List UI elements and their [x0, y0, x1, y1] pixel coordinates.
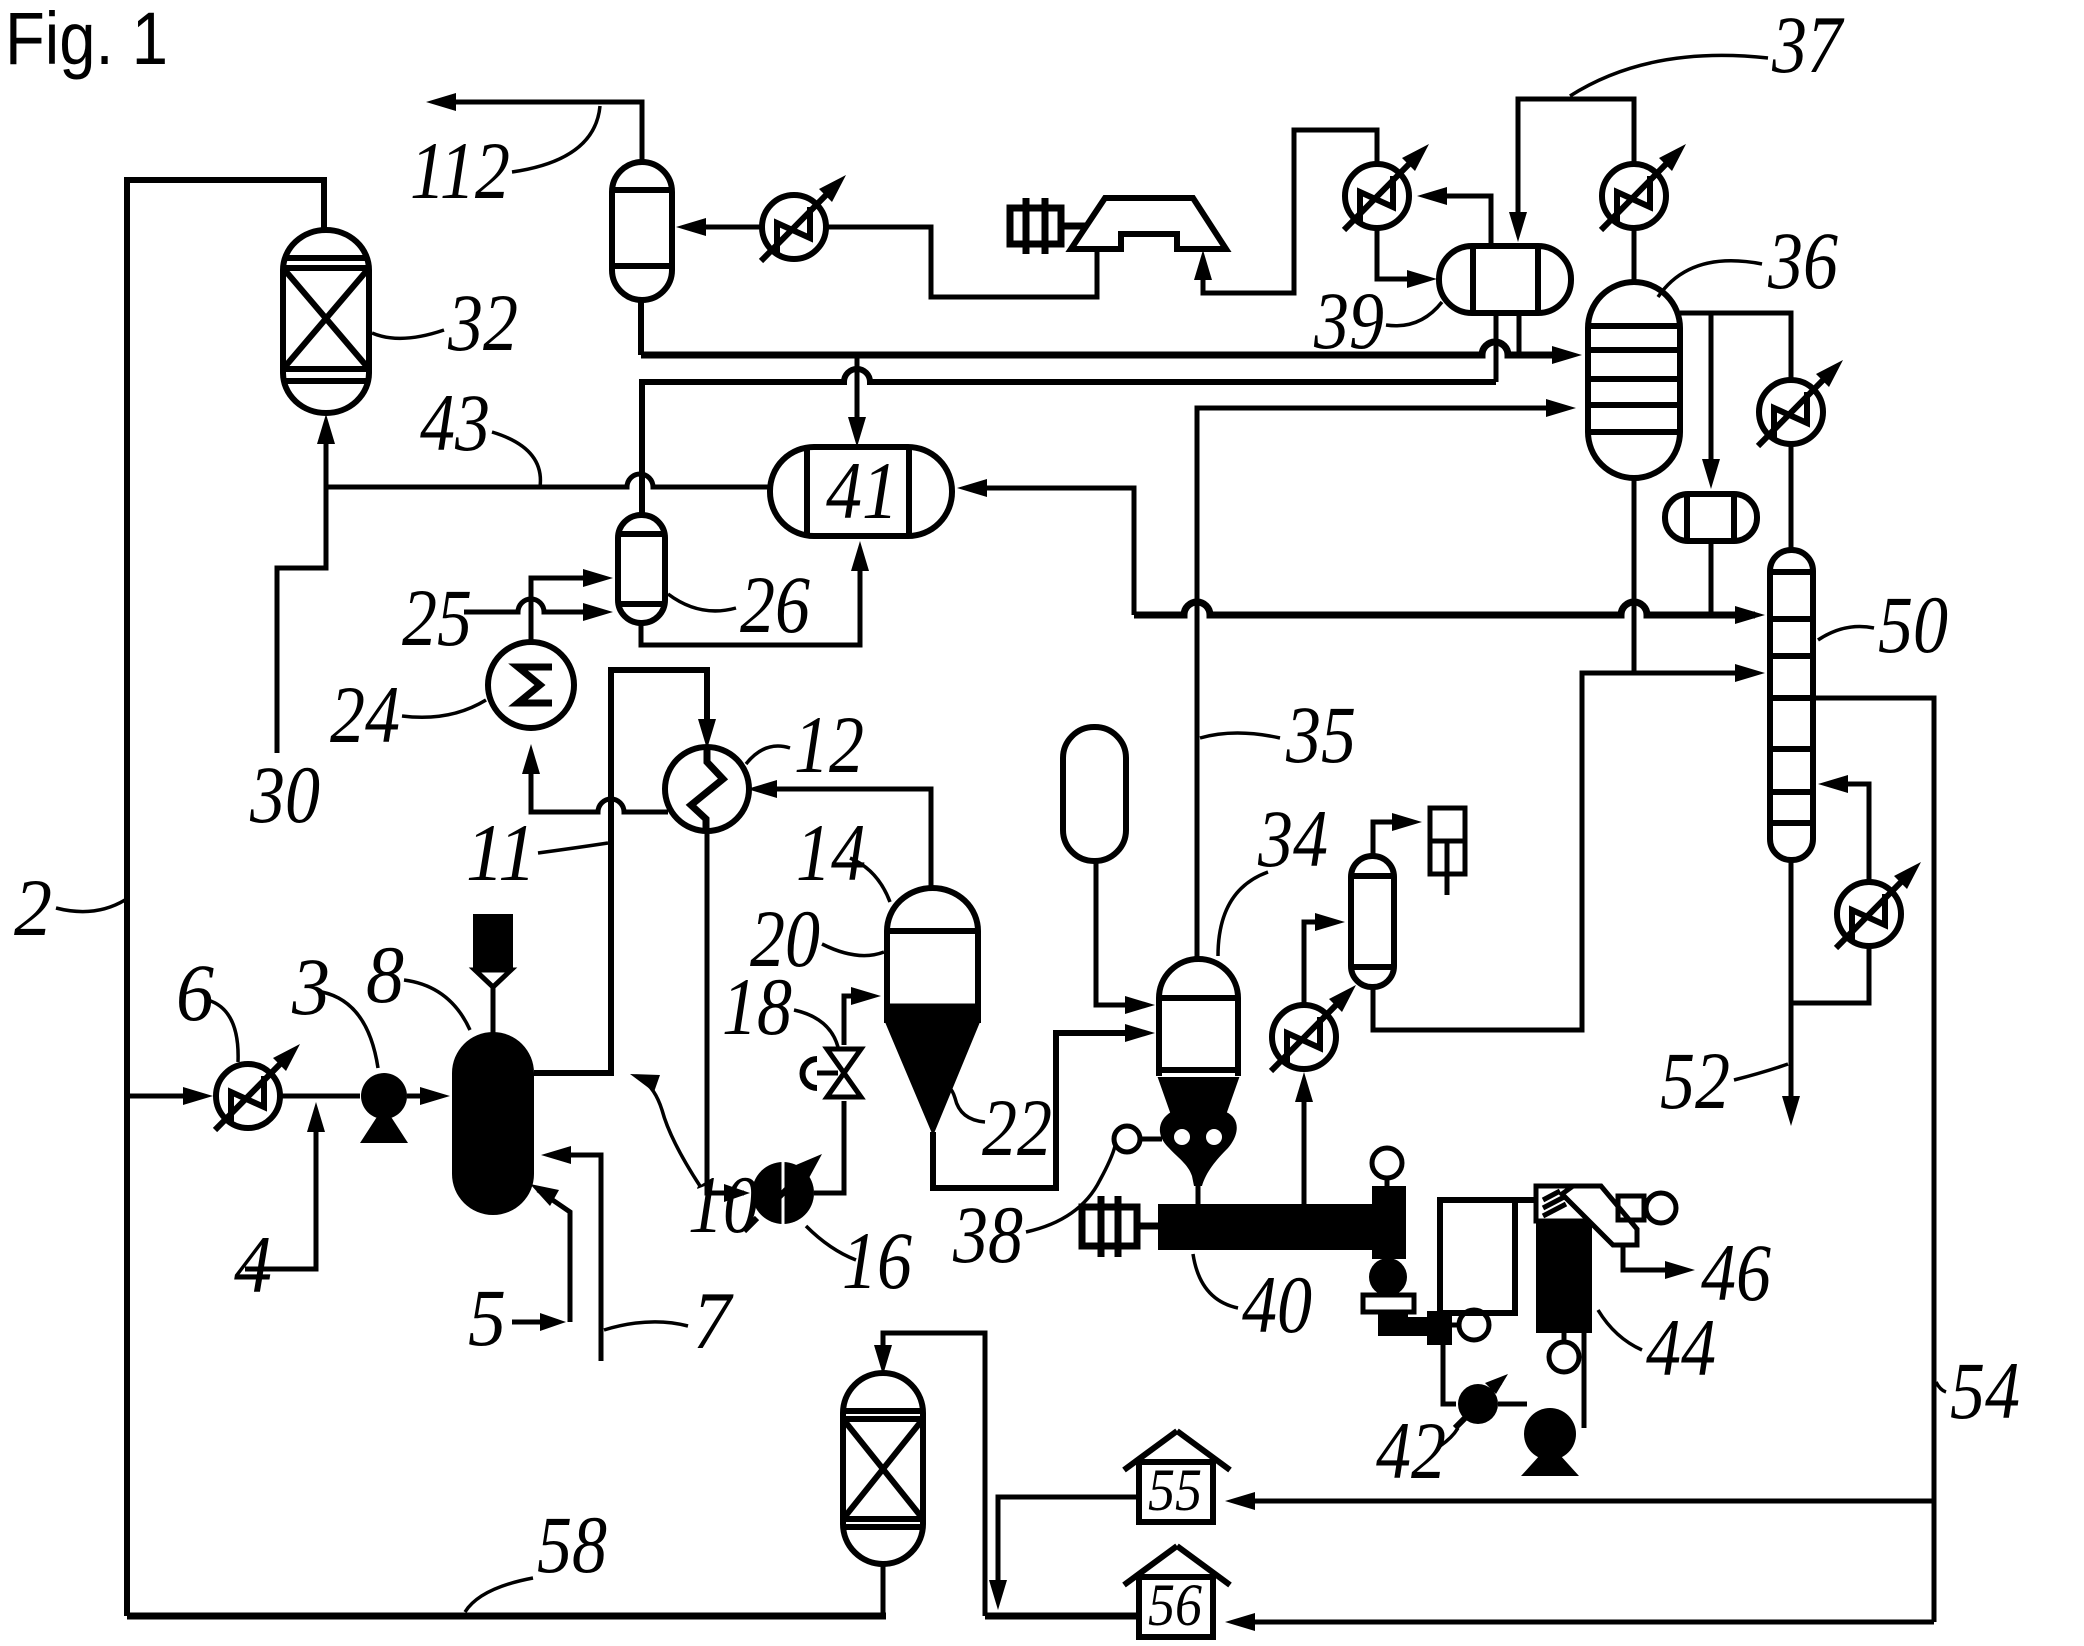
wire pump 42 to pump 42b — [1498, 1402, 1527, 1407]
svg-text:37: 37 — [1771, 0, 1844, 90]
svg-text:38: 38 — [952, 1189, 1023, 1280]
wire pelletizer down to pump 42 — [1443, 1345, 1456, 1404]
svg-text:16: 16 — [842, 1215, 912, 1306]
heat exchanger HX3 (column 36 overhead cooler) — [1601, 144, 1686, 230]
leader for 32 — [372, 330, 444, 338]
wire stream 5 into reactor 8 bottom — [512, 1190, 570, 1322]
svg-text:12: 12 — [794, 699, 864, 790]
wire stream 25 into vessel 26 with hop — [464, 599, 603, 612]
wire vessel 26 bottoms up into vessel 41 bottom — [641, 551, 860, 645]
wire stripper bottoms riser and y=673 line into column 50 — [1373, 673, 1755, 1030]
wire V112 bottoms line down — [638, 300, 644, 355]
leader for 20 — [822, 944, 884, 956]
wire HX2 outlet into vessel 39 left — [1377, 228, 1427, 279]
leader for 14 — [850, 858, 890, 902]
gear pump below extruder discharge — [1369, 1258, 1407, 1296]
wire compressor suction riser — [1203, 130, 1377, 293]
heat exchanger HX6 (feed preheater) — [215, 1044, 300, 1130]
svg-text:Fig. 1: Fig. 1 — [5, 0, 168, 80]
heat exchanger HX2 (vessel 39 feed cooler) — [1344, 144, 1429, 230]
heat exchanger HXR (vent gas heater near extruder) — [1271, 985, 1356, 1071]
hopper box between pelletizer and filter 44 — [1440, 1200, 1515, 1313]
vessel surge pot (small capsule) — [1063, 727, 1126, 861]
svg-text:50: 50 — [1878, 579, 1948, 670]
leader for 11 — [538, 843, 608, 853]
leader for 10 with arrow — [642, 1080, 700, 1186]
leader for 39 — [1386, 302, 1442, 326]
svg-text:8: 8 — [366, 929, 404, 1020]
heater HX24 (electric heater circle with sigma) — [488, 642, 574, 728]
svg-text:32: 32 — [447, 277, 518, 368]
leader for 54 — [1936, 1382, 1946, 1392]
wire line 43 horizontal with hop over x=642 — [326, 474, 772, 487]
svg-text:46: 46 — [1701, 1227, 1771, 1318]
wire vessel 14 overhead into HX12 right — [757, 789, 931, 888]
vessel 41 horizontal reactor drum — [770, 447, 952, 536]
leader for 58 — [465, 1578, 533, 1612]
sensor 38 circle on star feeder — [1114, 1126, 1140, 1152]
wire HX3 to column 36 top — [1632, 227, 1637, 284]
svg-text:36: 36 — [1767, 215, 1838, 306]
leader for 2 — [56, 900, 125, 912]
wire HX4 to column 50 top — [1789, 444, 1794, 552]
svg-text:22: 22 — [982, 1082, 1052, 1173]
compressor K1 (trapezoid body) — [1071, 198, 1226, 249]
stripper column (small vertical vessel) — [1351, 856, 1394, 987]
wire stream 30 line — [277, 487, 326, 753]
wire branch from line1 down to vessel 41 top — [855, 355, 860, 437]
leader for 16 — [806, 1226, 856, 1260]
svg-text:3: 3 — [291, 941, 330, 1032]
wire HX12 shell out to HX24 with arrow up — [531, 754, 668, 812]
wire guard bed feed loop with arrow down into vessel top — [883, 1333, 985, 1616]
wire column 36 bottoms line down to y=673 line — [1632, 478, 1637, 673]
wire vessel 39 overhead to HX2 right with arrow — [1427, 196, 1491, 246]
leader for 42 — [1440, 1428, 1458, 1446]
svg-text:39: 39 — [1313, 275, 1384, 366]
leader for 8 — [404, 980, 470, 1030]
svg-text:24: 24 — [330, 669, 400, 760]
wire reboiler loop via HX5 back into column 50 — [1791, 784, 1869, 1003]
leader for 26 — [668, 594, 736, 611]
wire HX24 outlet up into vessel 26 upper inlet — [531, 578, 603, 642]
wire recycle line 2 (left vertical loop) — [127, 180, 324, 1616]
wire cyclone 22 bottoms over and up into vessel 34 lower inlet — [933, 1033, 1145, 1188]
leader for 38 — [1026, 1146, 1115, 1232]
svg-text:52: 52 — [1660, 1035, 1730, 1126]
wire furnace 55 outlet down to recycle line — [998, 1497, 1139, 1600]
svg-text:6: 6 — [176, 947, 214, 1038]
drain circle under filter 44 — [1562, 1333, 1567, 1342]
chute from filter 44 head — [1562, 1186, 1637, 1245]
wire HXR outlet into stripper column — [1304, 922, 1335, 1005]
leader for 12 — [746, 746, 790, 764]
leader for 43 — [492, 432, 540, 487]
wire column 50 bottoms and product 52 arrow — [1789, 860, 1794, 1116]
extruder 40 (filled barrel) — [1158, 1204, 1372, 1250]
leader for 44 — [1598, 1310, 1642, 1350]
wire feed into furnace 56 — [1235, 1620, 1934, 1625]
svg-text:2: 2 — [14, 862, 52, 953]
column 36 (distillation column with trays) — [1588, 282, 1680, 478]
svg-text:40: 40 — [1242, 1259, 1312, 1350]
leader for 36 — [1658, 261, 1762, 297]
svg-text:54: 54 — [1950, 1345, 2020, 1436]
vent filter box — [1430, 808, 1465, 874]
svg-text:41: 41 — [826, 445, 898, 536]
svg-text:55: 55 — [1148, 1457, 1202, 1523]
instrument circle on pelletizer — [1459, 1310, 1489, 1340]
wire compressor discharge to HX1 — [826, 227, 1097, 297]
wire branch down into reflux drum — [1709, 313, 1714, 479]
wire line 35 from vessel 34 top to column 36 — [1197, 408, 1566, 957]
motor M1 (compressor driver) — [1010, 198, 1088, 254]
wire pump 16 discharge up through valve 18 into vessel 20 — [814, 996, 871, 1193]
vessel 34 spray dryer with cone and star feeder — [1159, 959, 1238, 1076]
wire feed up into vessel 32 bottom — [324, 424, 329, 487]
svg-text:35: 35 — [1285, 689, 1356, 780]
wire stripper overhead into vent filter box — [1373, 822, 1412, 856]
guard bed vessel on recycle line 58 — [843, 1373, 923, 1564]
valve 18 (globe valve with actuator) — [827, 1049, 861, 1097]
wire pump 3 discharge into reactor 8 — [407, 1094, 440, 1099]
leader for 18 — [794, 1010, 838, 1047]
svg-text:25: 25 — [402, 572, 472, 663]
wire HX12 bottom outlet to pump 16 — [707, 831, 744, 1193]
svg-text:43: 43 — [420, 377, 490, 468]
svg-text:30: 30 — [249, 749, 320, 840]
svg-text:5: 5 — [468, 1272, 506, 1363]
svg-text:7: 7 — [693, 1275, 734, 1366]
wire fresh feed from recycle into HX6 — [127, 1094, 203, 1099]
furnace 56 (house symbol) — [1124, 1546, 1230, 1637]
svg-text:14: 14 — [796, 807, 866, 898]
wire line 11 from reactor 8 outlet over into HX12 top — [534, 670, 707, 1073]
pump 16 (filled circle with control arrow) — [752, 1162, 814, 1224]
solids feed hopper above reactor 8 — [473, 914, 513, 970]
gauge on extruder discharge — [1372, 1148, 1402, 1178]
wire feed into furnace 55 — [1235, 1499, 1934, 1504]
wire overhead line with arrow (stream 112) — [436, 102, 642, 162]
pump 42 (filled circle with control arrow) — [1458, 1384, 1498, 1424]
svg-text:42: 42 — [1376, 1405, 1446, 1496]
leader for 35 — [1200, 733, 1280, 738]
leader for 40 — [1193, 1254, 1238, 1308]
wire feed 4 joining before pump 3 — [245, 1112, 316, 1269]
pump 42b (ball and base) — [1524, 1408, 1576, 1460]
wire bottom recycle line 58 left segment — [127, 1613, 886, 1620]
wire bottom line segment to furnace 56 — [985, 1613, 1139, 1620]
wire column 36 right side draw to HX4 and column 50 — [1680, 313, 1791, 380]
svg-text:56: 56 — [1148, 1572, 1202, 1638]
svg-text:58: 58 — [537, 1499, 607, 1590]
pump 3 (ball and base) — [361, 1073, 407, 1119]
heat exchanger HX12 (vertical zigzag) — [665, 747, 749, 831]
leader for 112 — [512, 106, 600, 172]
small box and circle at right of chute — [1618, 1196, 1644, 1220]
wire loop 37 into vessel 39 top — [1518, 99, 1634, 232]
furnace 55 (house symbol) — [1124, 1431, 1230, 1522]
wire product 46 from chute with arrow — [1623, 1245, 1685, 1270]
reactor 8 (filled vessel) — [452, 1032, 534, 1215]
leader for 50 — [1818, 627, 1874, 641]
wire side draw 54 from column 50 down right side — [1813, 698, 1934, 1622]
svg-text:20: 20 — [750, 893, 820, 984]
heat exchanger HX1 (V112 inlet cooler) — [761, 175, 846, 261]
leader for 24 — [402, 700, 486, 717]
wire guard bed bottoms to recycle line — [881, 1564, 886, 1616]
reflux drum (small horizontal vessel) — [1665, 494, 1757, 541]
black elbow piping to pelletizer — [1378, 1312, 1408, 1324]
leader for 22 — [944, 1088, 985, 1122]
leader for 52 — [1734, 1064, 1788, 1080]
svg-text:34: 34 — [1257, 793, 1328, 884]
leader for 7 — [604, 1322, 688, 1330]
vessel 32 packed-bed reactor — [283, 230, 369, 413]
vessel 26 small vertical drum — [618, 515, 665, 623]
wire vessel 39 bottom right leg — [1517, 313, 1522, 355]
leader for 34 — [1218, 872, 1268, 956]
wire main line 1 (y=355) to column 36 — [641, 342, 1554, 355]
leader for 3 — [322, 992, 378, 1068]
leader for 37 — [1570, 55, 1768, 96]
wire filter 44 bottoms down to pump 42b — [1582, 1333, 1587, 1428]
heat exchanger HX4 (column 50 feed cooler) — [1758, 360, 1843, 446]
svg-text:11: 11 — [466, 807, 536, 898]
wire long line y=615 feeding vessel 41 and column 50 — [1134, 602, 1755, 615]
motor M40 (extruder drive) — [1082, 1196, 1158, 1257]
vessel 14/20 cyclone silo with black cone 22 — [887, 888, 978, 1023]
wire HX6 to pump 3 — [279, 1094, 360, 1099]
wire extruder vent up into HXR — [1302, 1080, 1307, 1204]
wire vessel 39 bottom left leg — [1494, 313, 1499, 382]
vessel 112 flash drum — [612, 162, 672, 300]
filter 44 (hatched head box and black body) — [1536, 1186, 1592, 1221]
wire line 2 (y=382) from vessel 39 bottoms to vessel 26, hop over x=857 — [642, 369, 1496, 513]
svg-text:112: 112 — [410, 125, 510, 216]
svg-text:10: 10 — [688, 1159, 758, 1250]
wire stream 7 riser into reactor 8 side — [551, 1155, 601, 1361]
svg-text:4: 4 — [234, 1219, 272, 1310]
wire reflux drum bottoms into y=615 line — [1709, 541, 1714, 615]
heat exchanger HX5 (column 50 reboiler) — [1836, 862, 1921, 948]
wire branch from y=615 line up and into vessel 41 right — [967, 488, 1134, 615]
wire HX1 to V112 with arrow — [686, 225, 762, 230]
wire surge pot bottoms into vessel 34 upper inlet — [1096, 861, 1145, 1005]
svg-text:26: 26 — [740, 559, 810, 650]
leader for 6 — [208, 1000, 238, 1062]
vessel 39 horizontal drum — [1439, 246, 1571, 313]
column 50 (tall narrow column) — [1770, 550, 1813, 860]
